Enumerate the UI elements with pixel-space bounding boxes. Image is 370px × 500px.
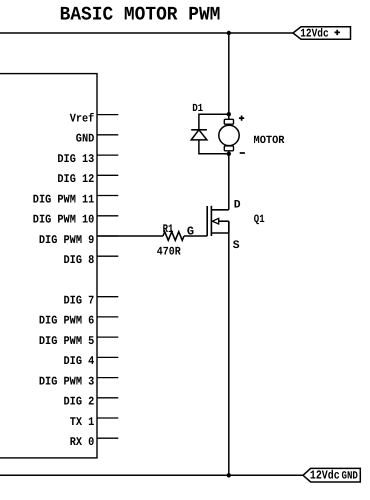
svg-text:12Vdc: 12Vdc: [300, 27, 329, 41]
pin DIG PWM 5: [39, 334, 118, 348]
svg-text:Q1: Q1: [254, 214, 265, 226]
resistor R1: [163, 232, 184, 241]
svg-text:DIG 12: DIG 12: [57, 172, 94, 186]
motor M1: [219, 119, 239, 150]
svg-text:GND: GND: [76, 132, 95, 146]
power flag 12Vdc +: [293, 27, 351, 41]
svg-text:S: S: [233, 240, 240, 252]
wire diode bottom branch: [199, 140, 229, 154]
pin DIG 4: [64, 354, 119, 368]
svg-text:GND: GND: [342, 470, 359, 482]
svg-text:DIG 13: DIG 13: [57, 152, 94, 166]
wire R1 to gate: [184, 235, 207, 237]
svg-text:TX 1: TX 1: [70, 415, 95, 429]
junction bottom rail: [227, 473, 231, 477]
svg-text:DIG PWM 9: DIG PWM 9: [39, 233, 94, 247]
pin DIG PWM 11: [33, 192, 119, 206]
svg-text:D: D: [234, 200, 241, 212]
controller box: [0, 74, 97, 458]
svg-text:Vref: Vref: [70, 111, 95, 125]
svg-text:DIG PWM 10: DIG PWM 10: [33, 213, 95, 227]
svg-text:DIG PWM 11: DIG PWM 11: [33, 192, 95, 206]
wire source to GND rail: [228, 221, 230, 475]
diode D1: [191, 130, 207, 140]
svg-text:DIG 4: DIG 4: [64, 354, 95, 368]
wire top rail to motor: [228, 33, 230, 119]
wire +12V top rail: [0, 32, 293, 34]
wire PWM9 to R1: [97, 235, 163, 237]
svg-text:RX 0: RX 0: [70, 435, 95, 449]
svg-text:MOTOR: MOTOR: [254, 135, 285, 147]
transistor Q1 MOSFET: [207, 206, 229, 236]
pin DIG PWM 6: [39, 314, 118, 328]
svg-text:12Vdc: 12Vdc: [310, 469, 340, 483]
pin TX 1: [70, 415, 119, 429]
label - motor minus: [240, 152, 245, 154]
pin GND: [76, 132, 119, 146]
power flag 12Vdc GND: [303, 468, 360, 482]
pin DIG 7: [64, 294, 119, 308]
svg-text:D1: D1: [192, 103, 203, 115]
svg-text:DIG PWM 3: DIG PWM 3: [39, 374, 94, 388]
svg-text:G: G: [187, 225, 194, 239]
svg-text:470R: 470R: [157, 246, 181, 259]
pin DIG 2: [64, 395, 119, 409]
junction motor bottom: [227, 152, 231, 156]
junction top rail: [227, 31, 231, 35]
pin DIG PWM 9: [39, 233, 118, 247]
svg-text:R1: R1: [163, 223, 174, 236]
svg-text:DIG PWM 6: DIG PWM 6: [39, 314, 94, 328]
svg-text:DIG 8: DIG 8: [64, 253, 95, 267]
pin DIG 13: [57, 152, 118, 166]
wire GND bottom rail: [0, 474, 303, 476]
svg-text:DIG 7: DIG 7: [64, 294, 95, 308]
pin DIG 12: [57, 172, 118, 186]
wire drain to motor: [228, 151, 230, 210]
pin RX 0: [70, 435, 119, 449]
junction motor top: [227, 112, 231, 116]
label + motor plus: [239, 116, 244, 121]
pin DIG 8: [64, 253, 119, 267]
pin DIG PWM 3: [39, 374, 118, 388]
wire diode top branch: [199, 114, 229, 130]
svg-text:DIG 2: DIG 2: [64, 395, 95, 409]
svg-text:BASIC MOTOR PWM: BASIC MOTOR PWM: [60, 4, 221, 26]
pin Vref: [70, 111, 119, 125]
svg-text:DIG PWM 5: DIG PWM 5: [39, 334, 94, 348]
pin DIG PWM 10: [33, 213, 119, 227]
